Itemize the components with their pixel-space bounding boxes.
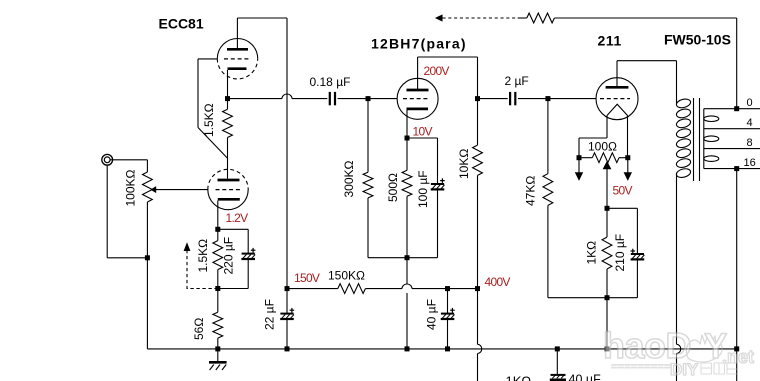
filament supply arrow right — [627, 158, 629, 173]
svg-text:40 µF: 40 µF — [569, 373, 602, 381]
wire pot bottom — [146, 202, 148, 258]
tube 211 (V3) — [596, 78, 638, 120]
V1a grid lead — [198, 58, 217, 60]
resistor 10K — [473, 145, 483, 175]
wire 2uF to 211 grid node — [518, 98, 548, 100]
junction tap 0 — [734, 106, 739, 111]
svg-text:0.18 µF: 0.18 µF — [310, 75, 351, 89]
svg-text:=========: ========= — [611, 361, 671, 373]
junction V2 cathode 10V node — [405, 136, 410, 141]
V2 cathode lead — [406, 110, 408, 138]
svg-text:22 µF: 22 µF — [263, 299, 277, 330]
svg-text:ECC81: ECC81 — [159, 15, 204, 31]
junction 211 bias bottom — [605, 295, 610, 300]
wire wiper to ECC81 grid — [156, 189, 208, 191]
capacitor 220uF — [242, 253, 255, 255]
wire 1.5K bottom to V1b plate — [227, 138, 229, 179]
wire V3 plate to transformer — [617, 60, 677, 62]
V1b plate bar — [218, 179, 240, 182]
V2 cathode bar — [407, 108, 429, 111]
T1 16-tap drop to rail — [736, 169, 738, 349]
T1 tap 4 wire — [704, 128, 760, 130]
hum pot wiper arrow — [603, 161, 612, 169]
wire 1K leads — [606, 208, 608, 237]
V3 grid dashes — [600, 98, 630, 100]
resistor 100 ohm hum pot — [592, 153, 619, 163]
T1 secondary winding — [703, 109, 705, 169]
capacitor 0.18uF — [329, 92, 331, 105]
svg-text:1KΩ: 1KΩ — [585, 241, 599, 265]
wire 100 leads — [579, 157, 592, 159]
wire 0.18uF to grid node — [338, 98, 368, 100]
wire grid link diagonal — [198, 128, 228, 159]
V2 grid dashes — [403, 98, 428, 100]
capacitor 210uF — [631, 253, 644, 255]
svg-text:300KΩ: 300KΩ — [342, 160, 356, 197]
V1a cathode lead — [227, 70, 229, 99]
junction coupling node — [475, 96, 480, 101]
wire 22uF leads — [286, 289, 288, 314]
svg-text:40 µF: 40 µF — [425, 299, 439, 330]
T1 tap 16 wire — [704, 168, 760, 170]
T1 tap 8 wire — [704, 148, 760, 150]
wire 47K leads — [547, 99, 549, 174]
svg-text:400V: 400V — [485, 275, 511, 289]
V3 filament V — [607, 104, 628, 115]
V3 filament right leg — [627, 116, 629, 158]
junction 211 grid node — [545, 96, 550, 101]
wire left rail down — [146, 258, 148, 349]
resistor 500 ohm — [402, 170, 412, 196]
wire 10K leads — [477, 99, 479, 146]
junction filament left — [577, 155, 582, 160]
V2 plate bar — [407, 89, 429, 92]
svg-text:16: 16 — [744, 157, 756, 169]
svg-text:10KΩ: 10KΩ — [457, 149, 471, 179]
svg-text:100Ω: 100Ω — [588, 139, 617, 153]
transformer T1 primary winding — [676, 98, 692, 109]
capacitor 100uF — [431, 183, 444, 185]
junction 50V node — [605, 206, 610, 211]
svg-text:500Ω: 500Ω — [386, 173, 400, 202]
wire cathode node right — [218, 228, 248, 230]
V2 plate lead — [417, 57, 419, 89]
input jack J1 — [102, 154, 113, 165]
wire B+ drop x287 to 150V node — [286, 18, 288, 289]
junction 40uF rail — [445, 346, 450, 351]
svg-text:150V: 150V — [294, 271, 320, 285]
svg-text:200V: 200V — [424, 64, 450, 78]
svg-text:1.5KΩ: 1.5KΩ — [202, 103, 216, 137]
capacitor 2uF — [509, 92, 511, 105]
wire V2 bias bottom row — [368, 257, 438, 259]
svg-text:1.2V: 1.2V — [226, 211, 249, 225]
svg-text:2 µF: 2 µF — [505, 74, 529, 88]
T1 core — [693, 98, 695, 181]
junction bias rail — [605, 346, 610, 351]
V1b cathode bar — [218, 198, 240, 201]
wire 56 leads — [217, 289, 219, 313]
wire V2 plate to coupling node — [418, 56, 478, 58]
ground symbol — [217, 349, 219, 362]
junction 12BH7 grid node — [366, 96, 371, 101]
resistor 300K — [363, 172, 373, 198]
wire 1.5K top lead — [227, 99, 229, 110]
capacitor 40uF (psu, cut off) — [556, 349, 558, 374]
resistor 150K — [338, 284, 366, 294]
svg-text:210 µF: 210 µF — [613, 234, 627, 272]
wire 220uF bottom — [247, 259, 249, 289]
svg-text:12BH7(para): 12BH7(para) — [371, 36, 467, 52]
svg-text:100KΩ: 100KΩ — [124, 169, 138, 206]
svg-text:56Ω: 56Ω — [192, 318, 206, 340]
junction filament right — [625, 155, 630, 160]
wire V1a top to B+ drop — [237, 17, 287, 19]
tube 12BH7 (V2) — [397, 78, 438, 119]
svg-text:100 µF: 100 µF — [416, 170, 430, 208]
junction pot-bottom node — [145, 255, 150, 260]
pot wiper arrow — [150, 186, 156, 193]
wire grid node to 211 — [548, 98, 596, 100]
capacitor 40uF (400V) — [441, 313, 454, 315]
V3 plate lead — [616, 61, 618, 86]
V3 plate bar — [606, 86, 629, 89]
svg-text:4: 4 — [747, 117, 753, 129]
nfb arrow — [435, 14, 443, 21]
junction V1a cathode node — [225, 96, 230, 101]
V1a cathode bar — [228, 67, 247, 70]
wire coupling node to 2uF — [478, 98, 508, 100]
svg-text:10V: 10V — [413, 125, 433, 139]
wire 150V node to 150K — [287, 288, 338, 290]
wire 100uF bottom — [437, 189, 439, 257]
svg-text:220 µF: 220 µF — [222, 237, 236, 275]
wire 500 leads — [406, 138, 408, 170]
junction tap16 drop — [734, 166, 739, 171]
svg-text:FW50-10S: FW50-10S — [664, 31, 731, 47]
V1b cathode lead — [217, 201, 219, 230]
capacitor 22uF — [280, 313, 293, 315]
wire grid node to 12BH7 — [368, 98, 397, 100]
svg-text:1.5KΩ: 1.5KΩ — [196, 239, 210, 273]
V1b grid dashes — [216, 189, 242, 191]
junction V1b cathode node — [215, 227, 220, 232]
junction 150V node — [285, 286, 290, 291]
wire 1.5K var leads — [217, 229, 219, 240]
T1 primary bottom lead (hops rail) — [676, 173, 678, 344]
filament supply arrow left — [578, 158, 580, 173]
svg-text:50V: 50V — [613, 183, 633, 197]
potentiometer 100K ohm — [143, 172, 153, 202]
resistor 1.5K (SRPP) — [223, 109, 233, 137]
wire 300K leads — [367, 99, 369, 173]
junction 22uF rail — [285, 346, 290, 351]
svg-text:DIY: DIY — [670, 360, 699, 379]
nfb dashed wire — [443, 17, 518, 19]
junction 56 bottom on rail — [215, 346, 220, 351]
svg-text:8: 8 — [747, 137, 753, 149]
nfb drop to 0 tap — [736, 18, 738, 109]
junction psu cap rail — [555, 346, 560, 351]
V1a grid dashes — [224, 58, 250, 60]
wire 40uF leads — [447, 289, 449, 314]
svg-text:211: 211 — [598, 32, 622, 48]
resistor 56 ohm — [213, 312, 223, 338]
wire 400V feed down (hops rail) — [477, 289, 479, 345]
wire jack ground drop — [106, 165, 108, 258]
wire bias bottom to rail — [606, 298, 608, 349]
T1 tap 0 wire — [704, 108, 760, 110]
svg-text:150KΩ: 150KΩ — [328, 268, 365, 282]
nfb wire leads — [518, 17, 527, 19]
wire 50V node right — [607, 207, 637, 209]
wire V1a-cathode to 0.18uF (hops x287) — [228, 98, 283, 100]
resistor 1.5K variable (cathode) — [213, 241, 223, 270]
junction V2 bias bottom — [405, 255, 410, 260]
V3 filament left leg — [606, 116, 608, 139]
wire V2 bias to rail (hops 400V line) — [406, 258, 408, 284]
wire 10V node to 100uF — [407, 137, 438, 139]
wire 210uF bottom — [636, 259, 638, 297]
junction 40uF top — [445, 286, 450, 291]
watermark haoDIY.net — [603, 325, 754, 379]
junction 400V node — [475, 286, 480, 291]
V1a plate bar — [227, 48, 248, 51]
svg-text:0: 0 — [747, 97, 753, 109]
resistor 1K (211 bias) — [602, 237, 612, 269]
wire jack to pot top — [110, 159, 147, 161]
junction cathode network bottom — [215, 286, 220, 291]
junction V2 bias rail — [405, 346, 410, 351]
triode ECC81 upper (V1a) — [217, 39, 257, 59]
ground rail — [147, 348, 737, 350]
resistor NFB — [527, 13, 555, 23]
wire 211 bias bottom row — [548, 297, 638, 299]
V1a plate lead — [236, 18, 238, 48]
svg-text:1KΩ: 1KΩ — [506, 374, 532, 381]
svg-text:47KΩ: 47KΩ — [524, 176, 538, 206]
resistor 47K — [543, 174, 553, 206]
dashed wiper arrow of 1.5K var — [187, 250, 218, 289]
wire 150K to 400V node (hops x407) — [365, 288, 402, 290]
junction tap16 rail — [734, 346, 739, 351]
wire grid link vertical — [197, 59, 199, 128]
triode ECC81 lower (V1b) — [208, 190, 248, 210]
